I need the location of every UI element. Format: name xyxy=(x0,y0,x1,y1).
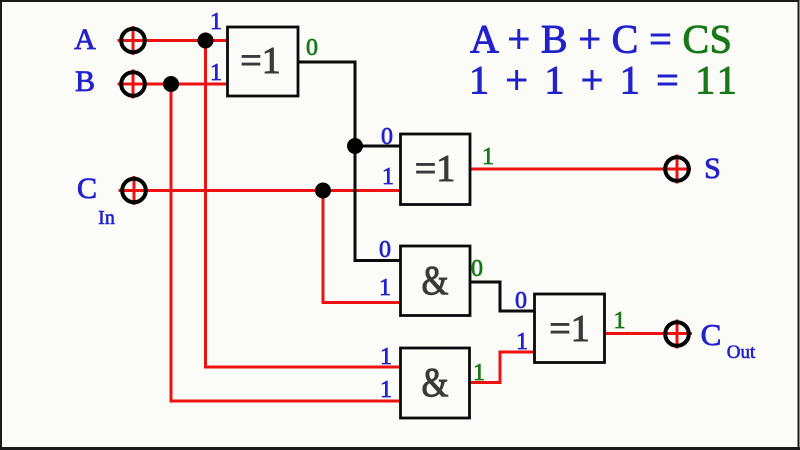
svg-text:In: In xyxy=(98,207,115,229)
svg-text:1 + 1 + 1 = 11: 1 + 1 + 1 = 11 xyxy=(469,58,740,103)
svg-text:1: 1 xyxy=(473,360,485,386)
wire C branch vertical to gate U3 lower input xyxy=(323,191,401,303)
and gate U4 xyxy=(401,348,470,418)
xor gate U1 xyxy=(228,27,299,96)
svg-text:0: 0 xyxy=(379,237,391,263)
svg-text:1: 1 xyxy=(380,344,392,370)
svg-text:&: & xyxy=(422,359,449,405)
svg-text:Out: Out xyxy=(727,342,756,363)
svg-text:1: 1 xyxy=(210,9,222,35)
junction on C net xyxy=(315,183,331,199)
svg-text:=1: =1 xyxy=(415,148,455,190)
svg-text:0: 0 xyxy=(381,124,393,150)
svg-text:1: 1 xyxy=(614,308,626,334)
svg-text:A + B + C = CS: A + B + C = CS xyxy=(470,16,732,61)
terminal A xyxy=(121,26,145,55)
svg-text:=1: =1 xyxy=(240,40,280,82)
junction on B net xyxy=(163,76,179,92)
xor gate U2 xyxy=(401,134,471,205)
wire B terminal to gate U1 lower input xyxy=(118,83,228,86)
wire U5 output to C_Out terminal xyxy=(605,332,693,335)
wire B branch vertical to gate U4 lower input xyxy=(171,84,401,401)
svg-text:0: 0 xyxy=(471,256,483,282)
wire A terminal to gate U1 upper input xyxy=(118,39,228,42)
wire C terminal to gate U2 lower input xyxy=(119,189,401,192)
svg-text:1: 1 xyxy=(379,275,391,301)
svg-text:B: B xyxy=(75,65,95,98)
terminal B xyxy=(121,70,145,99)
svg-text:0: 0 xyxy=(306,35,318,61)
svg-text:1: 1 xyxy=(210,60,222,86)
svg-text:A: A xyxy=(74,23,96,56)
svg-text:1: 1 xyxy=(482,144,494,170)
junction on U1 output net xyxy=(347,138,363,154)
svg-text:S: S xyxy=(704,152,721,185)
wire U2 output to S terminal xyxy=(470,168,691,171)
svg-text:1: 1 xyxy=(382,164,394,190)
wire U4 output to U5 lower input xyxy=(470,352,535,383)
terminal C_In xyxy=(122,176,146,205)
svg-text:=1: =1 xyxy=(549,308,589,350)
svg-text:C: C xyxy=(77,172,97,205)
xor gate U5 xyxy=(535,294,605,363)
wire U1 output branch to U2 upper input xyxy=(355,145,401,148)
wire U1 output net (value 0) xyxy=(298,62,401,261)
wire U3 output to U5 upper input xyxy=(470,282,535,311)
terminal S xyxy=(665,155,689,184)
junction on A net xyxy=(198,33,214,49)
wire A branch vertical to gate U4 upper input xyxy=(206,41,401,368)
svg-text:C: C xyxy=(701,317,722,352)
svg-text:1: 1 xyxy=(380,377,392,403)
and gate U3 xyxy=(401,246,471,316)
svg-text:0: 0 xyxy=(515,288,527,314)
svg-text:1: 1 xyxy=(516,329,528,355)
terminal C_Out xyxy=(665,320,689,349)
svg-text:&: & xyxy=(422,257,449,303)
